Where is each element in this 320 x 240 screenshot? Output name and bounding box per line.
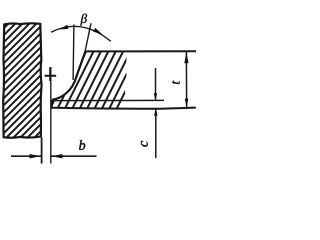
beta arc right arrowhead (93, 28, 102, 34)
extension line from plate end face (50, 67, 52, 164)
c lower leader line with up arrowhead (155, 108, 157, 158)
beta vertical reference line (72, 25, 75, 81)
first hatch stroke hugging bevel (79, 53, 85, 71)
beta dimension arc (51, 26, 111, 41)
root face top extension line (c reference) (53, 99, 165, 101)
label b (79, 140, 85, 150)
left plate hatching (0, 22, 157, 139)
right plate top surface line (85, 50, 196, 52)
bevel face extension line (85, 23, 91, 51)
extension line from left plate face (41, 138, 43, 164)
right plate hatching (42, 50, 198, 110)
t top arrowhead (184, 52, 188, 64)
right plate bottom surface line (51, 108, 196, 109)
label t (rotated) (172, 81, 180, 84)
left plate outline (3, 23, 41, 137)
b dimension left segment with right arrowhead (11, 155, 41, 157)
t dimension line (185, 52, 187, 107)
label beta (80, 14, 87, 26)
beta arc left arrowhead (60, 25, 69, 30)
plus mark at root (45, 67, 57, 81)
t bottom arrowhead (185, 99, 189, 108)
right plate root face edge (51, 100, 53, 108)
b dimension right segment with left arrowhead (51, 155, 96, 157)
J-groove face curve (52, 51, 85, 99)
label c (rotated) (141, 141, 148, 147)
c upper leader line with down arrowhead (155, 68, 157, 100)
